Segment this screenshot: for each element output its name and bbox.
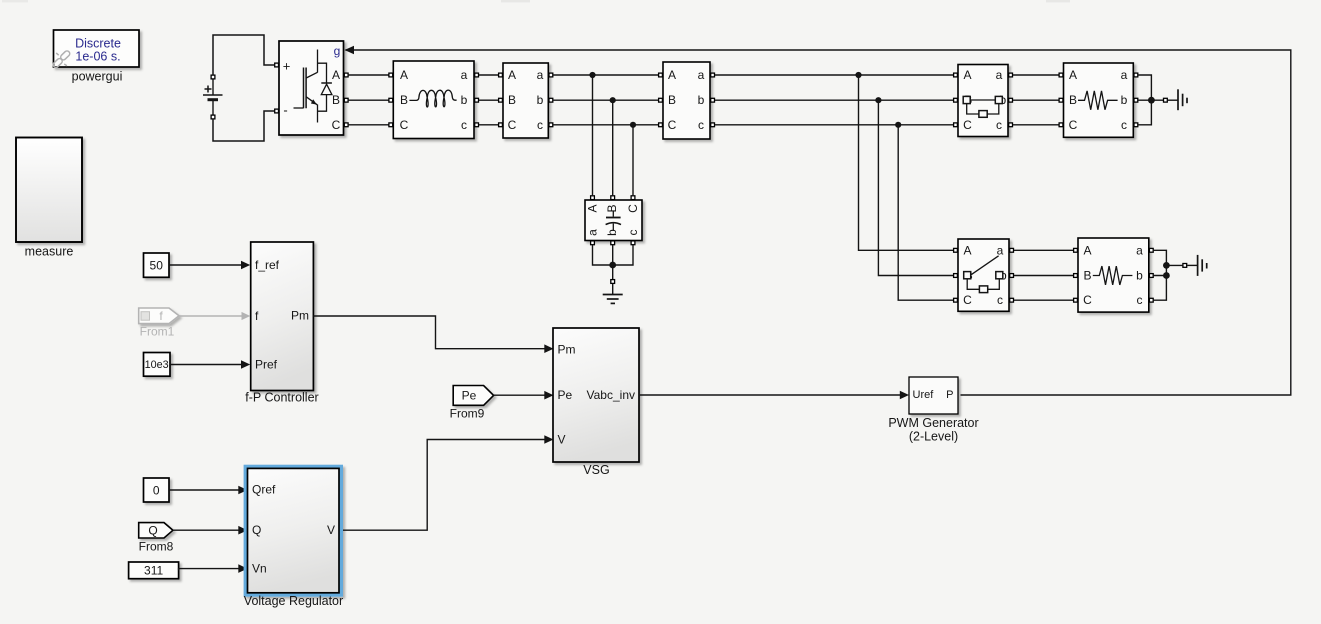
node ground tie 1	[1148, 97, 1155, 104]
svg-text:b: b	[605, 229, 619, 236]
breaker1 port B	[954, 98, 958, 102]
wire cap drop C	[632, 125, 634, 195]
VI meas port A	[499, 73, 503, 77]
svg-text:f_ref: f_ref	[255, 258, 280, 272]
svg-text:Uref: Uref	[913, 389, 935, 401]
svg-text:Q: Q	[252, 523, 261, 537]
node drop c	[895, 122, 901, 128]
powergui broken-link icon	[52, 50, 71, 69]
node ground tie 2a	[1163, 262, 1170, 269]
constant 311	[129, 562, 179, 579]
svg-text:Voltage Regulator: Voltage Regulator	[244, 594, 343, 608]
load2 block	[1078, 238, 1149, 312]
load1 port c	[1134, 123, 1138, 127]
wire phase C inverter to RL	[349, 124, 391, 126]
inverter port -	[275, 109, 279, 113]
svg-text:c: c	[1137, 293, 1143, 307]
node drop a	[855, 72, 861, 78]
load1 port C	[1059, 123, 1063, 127]
node cap tap A	[589, 72, 595, 78]
svg-text:c: c	[537, 118, 543, 132]
wire From9 to VSG Pe	[494, 394, 547, 396]
breaker2 block (open)	[958, 239, 1009, 311]
VI meas port a	[549, 73, 553, 77]
wire cap drop A	[592, 75, 594, 195]
subsystem4 port C	[659, 123, 663, 127]
svg-text:0: 0	[153, 483, 160, 497]
f-P Controller block	[251, 242, 314, 391]
RL port A	[389, 73, 393, 77]
RL port a	[475, 73, 479, 77]
load1 port B	[1059, 98, 1063, 102]
arrowhead VSG Pm	[544, 344, 553, 353]
ground2 symbol	[1187, 255, 1207, 276]
svg-text:Pe: Pe	[462, 389, 477, 403]
DC source battery symbol	[203, 79, 223, 115]
wire phase c breaker1 to load1	[1013, 124, 1061, 126]
wire From1 to f (grey)	[179, 315, 244, 317]
svg-text:b: b	[1136, 269, 1143, 283]
constant 50	[144, 253, 170, 277]
ground1 port square	[1164, 98, 1168, 102]
inverter port A	[344, 73, 348, 77]
load1 port a	[1134, 73, 1138, 77]
svg-text:C: C	[508, 118, 517, 132]
svg-text:a: a	[537, 68, 544, 82]
powergui block	[54, 30, 140, 67]
svg-text:From9: From9	[450, 407, 485, 421]
wire phase b meas to subsystem4	[553, 99, 660, 101]
RL port c	[475, 123, 479, 127]
wire drop c to breaker2	[898, 125, 955, 300]
svg-text:B: B	[605, 204, 619, 212]
svg-text:a: a	[997, 243, 1004, 257]
constant 0	[144, 478, 170, 502]
svg-text:A: A	[963, 68, 971, 82]
svg-text:PWM Generator: PWM Generator	[888, 416, 978, 430]
arrowhead Vn	[238, 564, 247, 573]
wire Pm to VSG	[313, 316, 546, 349]
svg-text:1e-06 s.: 1e-06 s.	[75, 50, 120, 64]
wire phase a breaker2 to load2	[1014, 249, 1076, 251]
node ground tie 2b	[1163, 272, 1170, 279]
capacitor port b	[611, 241, 615, 245]
arrowhead g input	[345, 46, 355, 55]
VI meas port c	[549, 123, 553, 127]
From9 tag Pe	[453, 386, 493, 406]
load2 port C	[1074, 298, 1078, 302]
svg-text:b: b	[461, 93, 468, 107]
svg-text:a: a	[1121, 68, 1128, 82]
svg-text:B: B	[508, 93, 516, 107]
svg-text:From8: From8	[139, 540, 174, 554]
battery port bottom	[211, 115, 215, 119]
svg-text:a: a	[586, 229, 600, 236]
arrowhead VSG Pe	[544, 391, 553, 400]
svg-text:a: a	[461, 68, 468, 82]
svg-text:+: +	[283, 59, 291, 74]
subsystem4 port a	[711, 73, 715, 77]
svg-text:50: 50	[150, 259, 164, 273]
RL port C	[389, 123, 393, 127]
svg-text:f-P Controller: f-P Controller	[245, 391, 318, 405]
wire cap drop B	[612, 100, 614, 195]
breaker1 port C	[954, 123, 958, 127]
From8 tag Q	[139, 523, 173, 538]
capacitor port a	[591, 241, 595, 245]
svg-text:measure: measure	[25, 245, 74, 259]
svg-text:B: B	[1069, 93, 1077, 107]
svg-text:A: A	[1083, 243, 1091, 257]
node neutral junction	[609, 262, 616, 269]
capacitor port c	[631, 241, 635, 245]
breaker1 port A	[954, 73, 958, 77]
wire phase a RL to VI meas	[479, 74, 500, 76]
inverter port B	[344, 98, 348, 102]
svg-text:Vabc_inv: Vabc_inv	[587, 388, 635, 402]
subsystem4 port b	[711, 98, 715, 102]
breaker1 port c	[1009, 123, 1013, 127]
ground1 symbol	[1168, 89, 1187, 110]
wire drop b to breaker2	[878, 100, 955, 275]
arrowhead Qref	[238, 486, 247, 495]
clipped label smudge top-right	[1046, 0, 1070, 2]
svg-text:Pm: Pm	[558, 342, 576, 356]
wire phase a meas to subsystem4	[553, 74, 660, 76]
svg-text:B: B	[332, 93, 340, 107]
wire phase A inverter to RL	[349, 74, 391, 76]
load1 port A	[1059, 73, 1063, 77]
node cap tap B	[610, 97, 616, 103]
wire phase c meas to subsystem4	[553, 124, 660, 126]
svg-text:C: C	[1069, 118, 1078, 132]
wire phase b RL to VI meas	[479, 99, 500, 101]
svg-text:Pe: Pe	[558, 388, 573, 402]
ground symbol below capacitor	[603, 284, 623, 303]
svg-text:V: V	[558, 433, 566, 447]
ground2 port square	[1183, 264, 1187, 268]
wire 311 to Vn	[179, 569, 240, 571]
svg-text:A: A	[400, 68, 408, 82]
Voltage Regulator block	[248, 468, 340, 592]
svg-text:c: c	[997, 293, 1003, 307]
wire drop a to breaker2	[859, 75, 956, 250]
wire Voltage Regulator V to VSG V	[343, 440, 547, 531]
wire From8 to Q	[173, 529, 240, 531]
breaker2 open-switch icon	[964, 256, 1003, 293]
load2 port b	[1149, 274, 1153, 278]
PWM Generator block	[909, 377, 958, 414]
inverter block U-bridge	[279, 41, 344, 135]
capacitor port B	[611, 196, 615, 200]
inductor coil icon	[409, 90, 456, 107]
wire 10e3 to Pref	[170, 364, 243, 366]
svg-text:Qref: Qref	[252, 482, 276, 496]
arrowhead f_ref	[241, 261, 250, 270]
svg-text:10e3: 10e3	[145, 359, 169, 371]
svg-text:V: V	[327, 523, 335, 537]
svg-text:a: a	[996, 68, 1003, 82]
svg-text:A: A	[963, 243, 971, 257]
svg-text:a: a	[698, 68, 705, 82]
load1 port b	[1134, 98, 1138, 102]
node drop b	[875, 97, 881, 103]
svg-text:C: C	[626, 204, 640, 213]
svg-text:A: A	[586, 204, 600, 212]
wire phase B inverter to RL	[349, 99, 391, 101]
inverter port +	[275, 63, 279, 67]
breaker2 port c	[1010, 298, 1014, 302]
svg-text:Discrete: Discrete	[75, 37, 121, 51]
measure block	[16, 138, 82, 243]
constant 10e3	[144, 353, 171, 377]
svg-text:P: P	[946, 389, 953, 401]
wire battery- to inverter	[213, 111, 274, 141]
load1 block	[1064, 63, 1134, 137]
svg-text:b: b	[1121, 93, 1128, 107]
svg-text:C: C	[332, 118, 341, 132]
node cap tap C	[630, 122, 636, 128]
svg-text:A: A	[332, 68, 340, 82]
wire phase b breaker1 to load1	[1013, 99, 1061, 101]
svg-text:C: C	[1083, 293, 1092, 307]
wire phase a breaker1 to load1	[1013, 74, 1061, 76]
wire 50 to f_ref	[169, 264, 243, 266]
svg-text:Q: Q	[148, 523, 157, 537]
load2 port B	[1074, 274, 1078, 278]
subsystem4 port c	[711, 123, 715, 127]
svg-text:C: C	[668, 118, 677, 132]
svg-text:b: b	[537, 93, 544, 107]
capacitor port C	[631, 196, 635, 200]
breaker1 block (closed)	[958, 65, 1008, 137]
breaker2 port B	[954, 274, 958, 278]
svg-text:a: a	[1136, 243, 1143, 257]
wire phase c breaker2 to load2	[1014, 299, 1076, 301]
svg-text:C: C	[963, 118, 972, 132]
svg-text:A: A	[668, 68, 676, 82]
svg-text:Vn: Vn	[252, 562, 267, 576]
load1 resistor icon	[1078, 91, 1118, 110]
RL port b	[475, 98, 479, 102]
breaker2 port A	[954, 248, 958, 252]
wire phase a subsystem4 to breaker1	[715, 74, 955, 76]
clipped label smudge top-center	[501, 0, 530, 2]
svg-text:b: b	[698, 93, 705, 107]
wire load2 outputs to ground tie	[1154, 250, 1183, 300]
VSG block	[553, 328, 639, 462]
subsystem4 block	[663, 62, 710, 139]
arrowhead PWM Uref	[900, 391, 909, 400]
three-phase RL branch block	[393, 61, 474, 139]
From1 tag (unresolved, grey)	[139, 308, 179, 324]
wire VSG Vabc_inv to PWM Uref	[639, 394, 902, 396]
svg-text:VSG: VSG	[583, 463, 609, 477]
svg-text:(2-Level): (2-Level)	[909, 430, 958, 444]
svg-text:B: B	[1083, 269, 1091, 283]
svg-text:-: -	[283, 103, 287, 118]
svg-text:c: c	[698, 118, 704, 132]
svg-text:Pref: Pref	[255, 358, 278, 372]
inverter port C	[344, 123, 348, 127]
svg-text:c: c	[996, 118, 1002, 132]
breaker1 closed-switch icon	[963, 96, 1002, 117]
wire phase c RL to VI meas	[479, 124, 500, 126]
VI measurement block	[503, 63, 548, 138]
load2 resistor icon	[1093, 266, 1133, 285]
VI meas port B	[499, 98, 503, 102]
inverter IGBT-diode icon	[294, 50, 332, 123]
svg-text:B: B	[400, 93, 408, 107]
svg-text:c: c	[626, 230, 640, 236]
wire phase b subsystem4 to breaker1	[715, 99, 955, 101]
wire battery+ to inverter	[213, 35, 274, 75]
wire phase b breaker2 to load2	[1014, 275, 1076, 277]
wire load1 outputs to ground tie	[1138, 75, 1163, 125]
load2 port A	[1074, 248, 1078, 252]
wire phase c subsystem4 to breaker1	[715, 124, 955, 126]
breaker1 port a	[1009, 73, 1013, 77]
svg-text:Pm: Pm	[291, 309, 309, 323]
breaker2 port a	[1010, 248, 1014, 252]
wire g feedback loop	[346, 50, 1291, 395]
arrowhead VSG V	[544, 435, 553, 444]
VI meas port b	[549, 98, 553, 102]
VI meas port C	[499, 123, 503, 127]
load2 port c	[1149, 298, 1153, 302]
svg-text:powergui: powergui	[72, 70, 123, 84]
svg-text:g: g	[334, 44, 341, 58]
arrowhead Pref	[241, 360, 250, 369]
subsystem4 port B	[659, 98, 663, 102]
svg-text:311: 311	[144, 564, 163, 578]
svg-text:B: B	[668, 93, 676, 107]
svg-text:c: c	[1121, 118, 1127, 132]
Voltage Regulator selection highlight	[244, 465, 343, 597]
svg-text:C: C	[400, 118, 409, 132]
load2 port a	[1149, 248, 1153, 252]
clipped label smudge top-left	[2, 0, 28, 2]
arrowhead f (grey)	[242, 312, 251, 320]
svg-text:From1: From1	[140, 325, 175, 339]
wire cap outputs to neutral	[593, 245, 634, 279]
breaker1 port b	[1009, 98, 1013, 102]
arrowhead Q	[238, 526, 247, 535]
svg-text:A: A	[508, 68, 516, 82]
capacitor port A	[591, 196, 595, 200]
breaker2 port b	[1010, 274, 1014, 278]
svg-text:c: c	[461, 118, 467, 132]
wire 0 to Qref	[169, 489, 240, 491]
svg-text:C: C	[963, 293, 972, 307]
ground port square	[611, 280, 615, 284]
subsystem4 port A	[659, 73, 663, 77]
RL port B	[389, 98, 393, 102]
battery port top	[211, 75, 215, 79]
capacitor bank block	[585, 200, 642, 241]
capacitor icon rotated	[606, 211, 621, 231]
svg-text:A: A	[1069, 68, 1077, 82]
breaker2 port C	[954, 298, 958, 302]
